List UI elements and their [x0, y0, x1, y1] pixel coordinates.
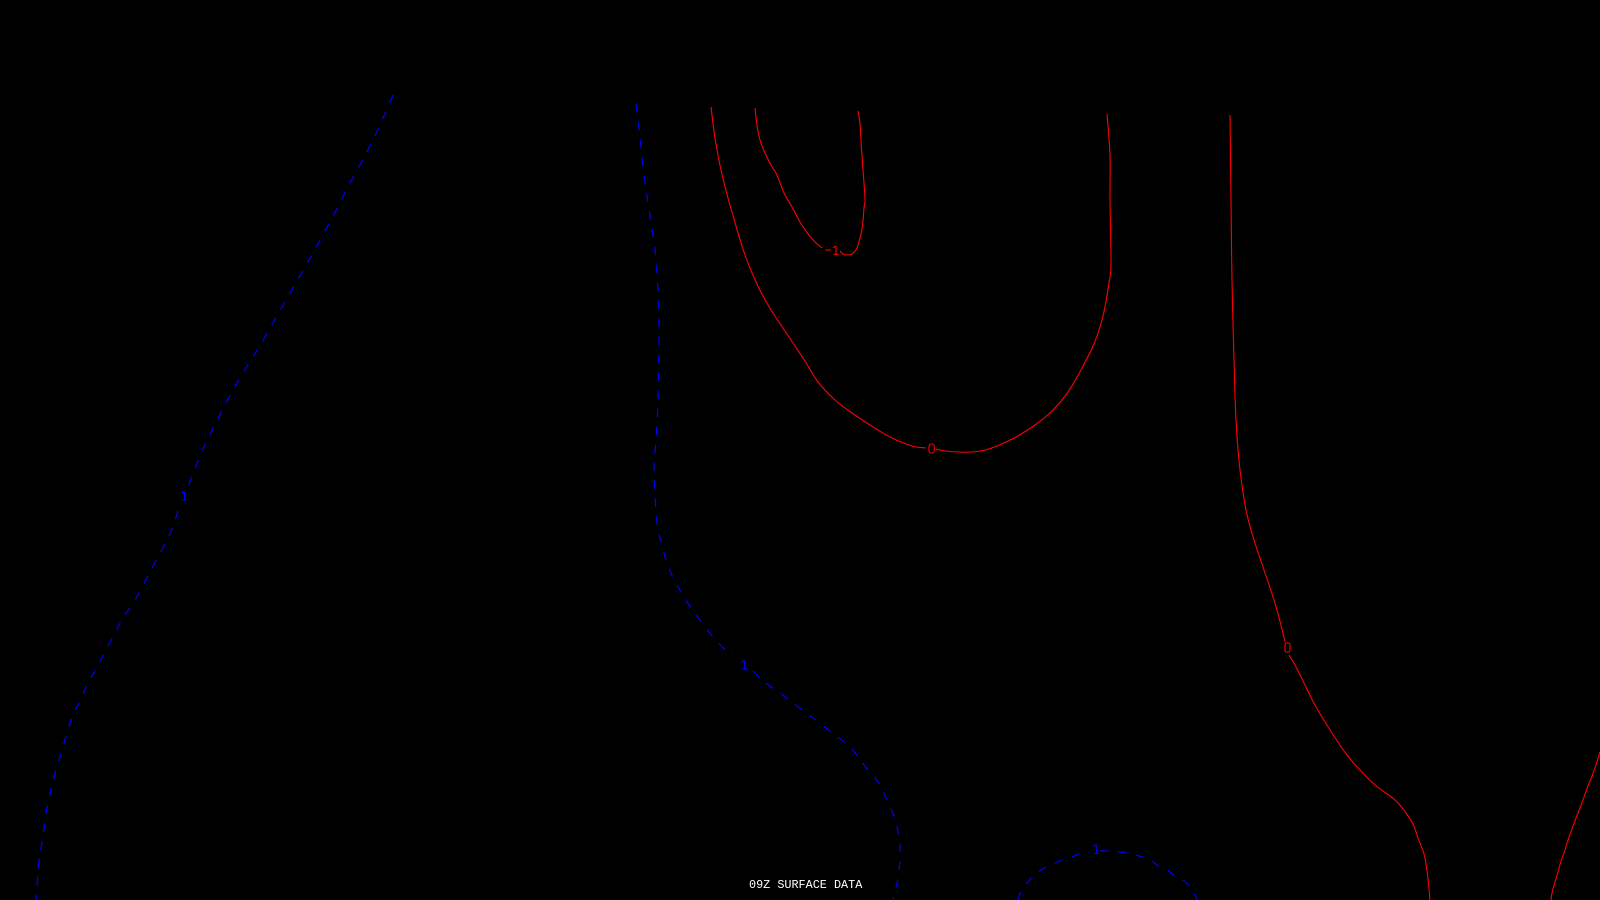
red contour label 0 (right line)	[1285, 643, 1290, 652]
blue contour label 1 (line 1)	[182, 492, 188, 500]
blue dashed contour line 2 (lower segment)	[753, 671, 900, 900]
red contour -1 small U (left arm)	[755, 108, 822, 248]
blue contour label 1 (line 2)	[742, 661, 748, 669]
blue dashed contour arc bottom (left segment)	[1018, 852, 1089, 900]
red contour 0 big U (left branch)	[711, 107, 926, 448]
red contour label 0 (big U)	[929, 444, 934, 453]
blue dashed contour line 2 (upper segment)	[636, 104, 733, 656]
blue dashed contour arc bottom (right segment)	[1100, 851, 1197, 900]
red contour 0 right line (upper segment)	[1230, 115, 1285, 642]
red contour 0 big U (bottom and right branch)	[936, 114, 1111, 452]
red contour far right edge	[1551, 752, 1600, 900]
red contour label -1	[826, 249, 832, 251]
red contour 0 right line (lower segment)	[1289, 655, 1430, 900]
blue contour label 1 (bottom arc)	[1093, 845, 1099, 854]
svg-text:09Z SURFACE DATA: 09Z SURFACE DATA	[749, 878, 863, 892]
blue dashed contour line 1 (lower segment)	[36, 511, 178, 900]
red contour -1 small U (bottom hook and right arm)	[840, 111, 865, 255]
blue dashed contour line 1 (upper segment)	[187, 95, 393, 489]
